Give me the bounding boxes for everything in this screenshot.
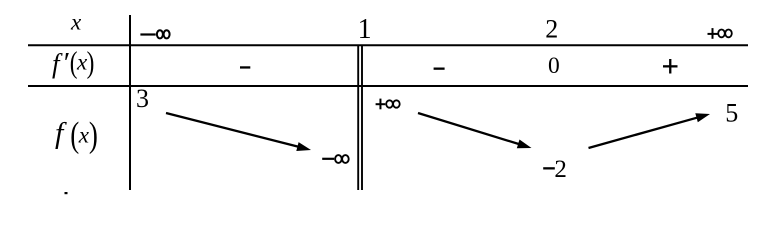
svg-text:0: 0 xyxy=(548,53,560,79)
svg-text:x: x xyxy=(70,9,82,34)
value -infinity (limit at 1 from the left): infinity loops xyxy=(335,155,349,163)
increasing arrow from -2 to 5 xyxy=(589,116,702,148)
label +infinity (top row): plus sign xyxy=(708,33,718,35)
label -infinity (top row): minus bar xyxy=(140,33,155,35)
svg-text:): ) xyxy=(87,46,95,80)
value -infinity (limit at 1 from the left): minus bar xyxy=(322,158,334,160)
svg-text:5: 5 xyxy=(725,98,738,127)
horizontal rule between f'(x) row and f(x) row xyxy=(28,85,748,87)
sign plus (third interval) xyxy=(663,65,678,67)
sign minus (second interval) xyxy=(434,68,445,70)
svg-text:f: f xyxy=(55,117,67,150)
svg-text:3: 3 xyxy=(136,84,149,113)
horizontal rule between x row and f'(x) row xyxy=(28,44,748,46)
stray dot bottom-left xyxy=(65,192,68,194)
header f'(x) xyxy=(52,46,94,80)
table column separator (vertical line after header column) xyxy=(129,15,131,190)
decreasing arrow from +infinity to -2 xyxy=(418,113,524,146)
sign minus (first interval) xyxy=(240,66,250,68)
label -infinity (top row): infinity loops xyxy=(157,30,170,38)
svg-text:2: 2 xyxy=(554,156,567,183)
header f(x) xyxy=(55,115,98,155)
value +infinity (limit at 1 from the right): infinity loops xyxy=(386,100,400,107)
svg-text:): ) xyxy=(89,115,98,155)
double vertical bar at x=1 (left) xyxy=(357,45,359,190)
value +infinity (limit at 1 from the right): plus sign xyxy=(376,103,386,105)
svg-text:2: 2 xyxy=(545,14,558,43)
svg-text:x: x xyxy=(78,122,90,147)
svg-text:1: 1 xyxy=(358,14,372,45)
double vertical bar at x=1 (right) xyxy=(361,45,363,190)
value -2 (minimum at x=2): minus bar xyxy=(543,167,555,169)
svg-text:f: f xyxy=(52,48,63,78)
label +infinity (top row): infinity loops xyxy=(718,30,732,38)
decreasing arrow from 3 to -infinity xyxy=(166,113,303,148)
